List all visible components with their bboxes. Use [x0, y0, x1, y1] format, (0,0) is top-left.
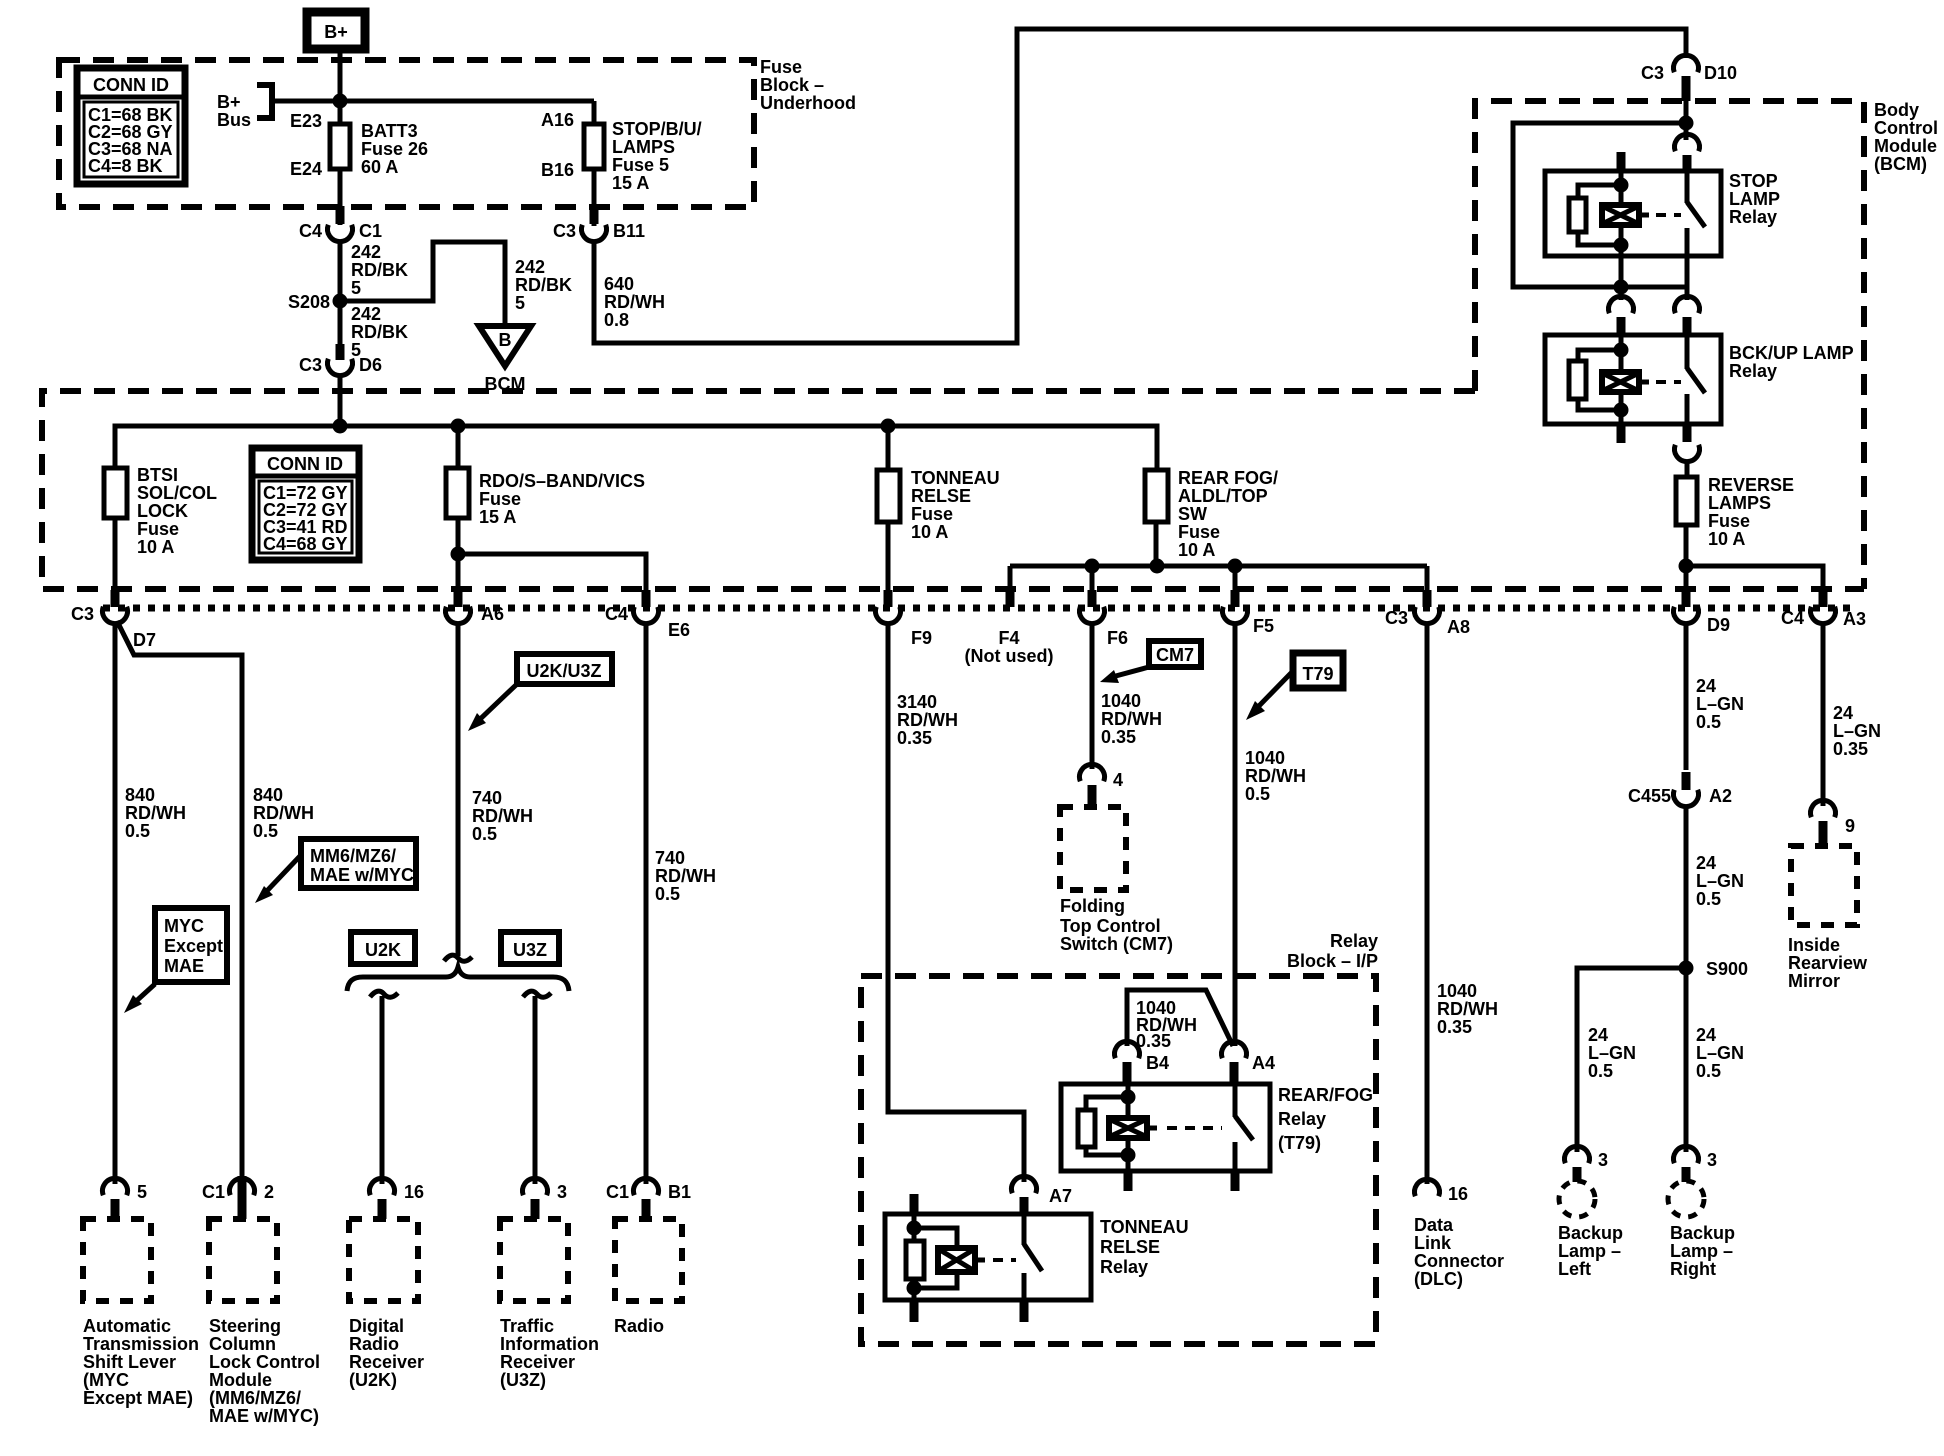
- wire U3Z branch: [523, 991, 551, 1184]
- wire D6 to fuse bus: [338, 374, 343, 426]
- svg-text:E24: E24: [290, 159, 322, 179]
- svg-text:SW: SW: [1178, 504, 1207, 524]
- steering column lock control module box: [209, 1219, 320, 1426]
- svg-text:24: 24: [1696, 1025, 1716, 1045]
- svg-text:Module: Module: [1874, 136, 1937, 156]
- svg-text:Mirror: Mirror: [1788, 971, 1840, 991]
- svg-text:Rearview: Rearview: [1788, 953, 1868, 973]
- svg-text:Underhood: Underhood: [760, 93, 856, 113]
- connector C3/A8: [1385, 590, 1470, 637]
- svg-text:0.5: 0.5: [1696, 889, 1721, 909]
- svg-text:Top Control: Top Control: [1060, 916, 1161, 936]
- svg-text:Fuse: Fuse: [1178, 522, 1220, 542]
- stop relay coil: [1569, 171, 1649, 256]
- svg-text:Block –: Block –: [760, 75, 824, 95]
- node D10 junction: [1679, 116, 1694, 131]
- svg-text:Inside: Inside: [1788, 935, 1840, 955]
- rear/fog relay actuator dashed link: [1167, 1126, 1222, 1130]
- svg-text:RD/WH: RD/WH: [897, 710, 958, 730]
- rear/fog relay label: [1278, 1085, 1373, 1153]
- svg-text:RD/WH: RD/WH: [125, 803, 186, 823]
- svg-text:Shift Lever: Shift Lever: [83, 1352, 176, 1372]
- svg-text:Receiver: Receiver: [500, 1352, 575, 1372]
- svg-text:C1: C1: [359, 221, 382, 241]
- svg-text:Information: Information: [500, 1334, 599, 1354]
- svg-text:Steering: Steering: [209, 1316, 281, 1336]
- svg-text:L–GN: L–GN: [1696, 694, 1744, 714]
- node RDO split: [451, 547, 466, 562]
- svg-text:LOCK: LOCK: [137, 501, 188, 521]
- svg-text:0.5: 0.5: [1696, 712, 1721, 732]
- svg-text:B16: B16: [541, 160, 574, 180]
- label 1040 RD/WH 0.5 (F5): [1245, 748, 1306, 804]
- callout MYC Except MAE: [124, 908, 227, 1013]
- svg-text:D6: D6: [359, 355, 382, 375]
- svg-text:F5: F5: [1253, 616, 1274, 636]
- label 1040 RD/WH 0.35 (F6): [1101, 691, 1162, 747]
- svg-text:ALDL/TOP: ALDL/TOP: [1178, 486, 1268, 506]
- svg-text:D9: D9: [1707, 615, 1730, 635]
- svg-text:0.5: 0.5: [125, 821, 150, 841]
- rear/fog relay switch: [1235, 1084, 1253, 1171]
- BCM label: [1874, 100, 1938, 174]
- svg-text:242: 242: [351, 304, 381, 324]
- wire A2 to backup lamp right: [1684, 806, 1689, 1152]
- svg-text:(T79): (T79): [1278, 1133, 1321, 1153]
- stop relay switch: [1687, 171, 1705, 256]
- svg-text:A6: A6: [481, 604, 504, 624]
- bck/up relay coil bottom stub: [1617, 424, 1626, 443]
- svg-text:F4: F4: [998, 628, 1019, 648]
- svg-text:(DLC): (DLC): [1414, 1269, 1463, 1289]
- svg-text:0.5: 0.5: [253, 821, 278, 841]
- rear/fog relay coil: [1078, 1084, 1157, 1171]
- svg-text:Relay: Relay: [1729, 207, 1777, 227]
- wire E6 740: [644, 623, 649, 1184]
- svg-text:9: 9: [1845, 816, 1855, 836]
- wire BTSI fuse to D7: [113, 518, 118, 592]
- svg-text:Column: Column: [209, 1334, 276, 1354]
- tonneau relay label: [1100, 1217, 1189, 1277]
- wire A8 1040 to DLC: [1425, 623, 1430, 1184]
- connector D9: [1674, 590, 1731, 635]
- svg-text:RD/BK: RD/BK: [515, 275, 572, 295]
- node sub bus fuse feed: [1150, 559, 1165, 574]
- svg-text:24: 24: [1696, 853, 1716, 873]
- svg-text:740: 740: [472, 788, 502, 808]
- svg-text:1040: 1040: [1101, 691, 1141, 711]
- svg-text:Module: Module: [209, 1370, 272, 1390]
- svg-text:Radio: Radio: [614, 1316, 664, 1336]
- U3Z option box: [501, 932, 559, 964]
- svg-text:Lock Control: Lock Control: [209, 1352, 320, 1372]
- wire D7 right branch 840: [117, 621, 242, 1184]
- tonneau relay box: [885, 1214, 1091, 1300]
- svg-text:LAMPS: LAMPS: [612, 137, 675, 157]
- svg-text:E6: E6: [668, 620, 690, 640]
- wire fuse5 to B11: [592, 169, 597, 226]
- svg-text:A16: A16: [541, 110, 574, 130]
- label 24 L-GN 0.5 (right lamp): [1696, 1025, 1744, 1081]
- svg-text:3: 3: [1707, 1150, 1717, 1170]
- wire rear fog fuse to sub bus: [1154, 522, 1159, 566]
- connector B4: [1115, 1041, 1170, 1084]
- svg-text:Lamp –: Lamp –: [1558, 1241, 1621, 1261]
- tonneau relay switch: [1024, 1214, 1042, 1300]
- svg-text:C4=68 GY: C4=68 GY: [263, 534, 348, 554]
- connector arc stop relay switch pin: [1675, 134, 1700, 172]
- wire D10 into BCM: [1684, 101, 1689, 140]
- svg-text:U2K: U2K: [365, 940, 401, 960]
- svg-text:D7: D7: [133, 630, 156, 650]
- bck/up lamp relay label: [1729, 343, 1854, 381]
- relay block label: [1287, 931, 1378, 971]
- connector F9: [876, 590, 933, 648]
- svg-text:Backup: Backup: [1670, 1223, 1735, 1243]
- label 1040 RD/WH 0.35 (A8): [1437, 981, 1498, 1037]
- svg-text:B+: B+: [217, 92, 241, 112]
- connector C4/C1: [299, 206, 382, 242]
- wire B4 jumper from A4: [1127, 990, 1233, 1046]
- stop lamp relay box: [1545, 171, 1721, 256]
- svg-text:D10: D10: [1704, 63, 1737, 83]
- connector C3/B11: [553, 206, 645, 242]
- node sub bus F6: [1085, 559, 1100, 574]
- svg-text:RD/WH: RD/WH: [1101, 709, 1162, 729]
- svg-text:CONN ID: CONN ID: [267, 454, 343, 474]
- svg-text:Fuse: Fuse: [911, 504, 953, 524]
- label 740 RD/WH 0.5 (A6): [472, 788, 533, 844]
- splice S900: [1679, 959, 1749, 979]
- tonneau relay coil: [906, 1214, 985, 1300]
- svg-text:0.5: 0.5: [1696, 1061, 1721, 1081]
- svg-text:B1: B1: [668, 1182, 691, 1202]
- fuse STOP/B/U/LAMPS Fuse 5 15A: [541, 101, 702, 193]
- backup lamp right bulb symbol: [1668, 1181, 1704, 1217]
- svg-text:Relay: Relay: [1278, 1109, 1326, 1129]
- svg-text:F6: F6: [1107, 628, 1128, 648]
- connector 3 backup lamp left: [1565, 1146, 1609, 1182]
- svg-text:Relay: Relay: [1330, 931, 1378, 951]
- svg-text:Folding: Folding: [1060, 896, 1125, 916]
- callout MM6/MZ6/MAE w/MYC: [255, 839, 416, 903]
- wire U2K branch: [370, 991, 398, 1184]
- svg-text:U2K/U3Z: U2K/U3Z: [526, 661, 601, 681]
- connector 4 folding top switch: [1080, 764, 1124, 807]
- svg-text:10 A: 10 A: [911, 522, 948, 542]
- connector C1/2 steering column: [202, 1176, 274, 1219]
- svg-text:16: 16: [404, 1182, 424, 1202]
- stop relay actuator dashed link: [1656, 213, 1681, 217]
- stop lamp relay label: [1729, 171, 1780, 227]
- svg-text:C1: C1: [202, 1182, 225, 1202]
- svg-text:BTSI: BTSI: [137, 465, 178, 485]
- svg-text:RD/WH: RD/WH: [1437, 999, 1498, 1019]
- svg-text:RELSE: RELSE: [1100, 1237, 1160, 1257]
- svg-text:STOP/B/U/: STOP/B/U/: [612, 119, 702, 139]
- wire S900 branch to backup lamp left: [1577, 968, 1686, 1152]
- svg-text:C3: C3: [71, 604, 94, 624]
- tonneau relay actuator dashed link: [993, 1258, 1016, 1262]
- wire S208 branch to BCM ground triangle: [340, 242, 505, 326]
- svg-text:Backup: Backup: [1558, 1223, 1623, 1243]
- svg-text:RD/WH: RD/WH: [655, 866, 716, 886]
- svg-text:2: 2: [264, 1182, 274, 1202]
- svg-text:Except: Except: [164, 936, 223, 956]
- svg-text:(Not used): (Not used): [965, 646, 1054, 666]
- wire 242 RD/BK from C1 to S208: [338, 240, 343, 350]
- svg-text:Transmission: Transmission: [83, 1334, 199, 1354]
- connector C455/A2: [1628, 772, 1732, 807]
- svg-text:1040: 1040: [1437, 981, 1477, 1001]
- connector F5: [1223, 590, 1275, 636]
- svg-text:U3Z: U3Z: [513, 940, 547, 960]
- svg-text:0.8: 0.8: [604, 310, 629, 330]
- svg-text:C3: C3: [299, 355, 322, 375]
- svg-text:L–GN: L–GN: [1588, 1043, 1636, 1063]
- svg-text:TONNEAU: TONNEAU: [1100, 1217, 1189, 1237]
- folding top control switch box: [1060, 807, 1173, 954]
- svg-text:60 A: 60 A: [361, 157, 398, 177]
- svg-text:242: 242: [351, 242, 381, 262]
- node reverse fuse split: [1679, 559, 1694, 574]
- svg-text:0.35: 0.35: [1136, 1031, 1171, 1051]
- connector 5 shift lever: [103, 1178, 148, 1219]
- DLC label: [1414, 1215, 1504, 1289]
- bck/up relay switch: [1687, 335, 1705, 424]
- svg-text:C4: C4: [605, 604, 628, 624]
- svg-text:Fuse: Fuse: [137, 519, 179, 539]
- svg-text:16: 16: [1448, 1184, 1468, 1204]
- wire A3 24 L-GN: [1821, 623, 1826, 806]
- fuse block dashed box (middle): [42, 391, 1864, 589]
- fuse RDO/S-BAND/VICS 15A: [446, 426, 645, 527]
- svg-text:0.35: 0.35: [1833, 739, 1868, 759]
- connector F4 not used: [965, 590, 1054, 666]
- B+ bus label: [217, 92, 251, 130]
- U2K option box: [351, 932, 415, 964]
- svg-text:MAE w/MYC): MAE w/MYC): [209, 1406, 319, 1426]
- fuse BATT3 Fuse 26 60A: [290, 111, 428, 179]
- bck/up relay actuator dashed link: [1656, 380, 1681, 384]
- wire D7 left branch 840: [113, 623, 118, 1184]
- tonneau relay bottom stubs: [910, 1300, 1029, 1322]
- svg-text:TONNEAU: TONNEAU: [911, 468, 1000, 488]
- svg-text:Block – I/P: Block – I/P: [1287, 951, 1378, 971]
- inside rearview mirror box: [1788, 846, 1868, 991]
- connector 16 digital radio: [370, 1178, 425, 1219]
- svg-text:3: 3: [557, 1182, 567, 1202]
- svg-text:Digital: Digital: [349, 1316, 404, 1336]
- svg-text:Relay: Relay: [1729, 361, 1777, 381]
- svg-text:242: 242: [515, 257, 545, 277]
- svg-text:0.35: 0.35: [1101, 727, 1136, 747]
- bck/up relay coil: [1569, 335, 1649, 424]
- svg-text:C3: C3: [1385, 608, 1408, 628]
- svg-text:C3: C3: [553, 221, 576, 241]
- svg-text:REAR FOG/: REAR FOG/: [1178, 468, 1278, 488]
- battery feed B+ box: [307, 12, 365, 49]
- label 640 RD/WH 0.8: [604, 274, 665, 330]
- wire branch to E6: [458, 554, 646, 592]
- svg-text:C4: C4: [1781, 608, 1804, 628]
- svg-text:LAMPS: LAMPS: [1708, 493, 1771, 513]
- svg-text:BCK/UP LAMP: BCK/UP LAMP: [1729, 343, 1854, 363]
- fuse block underhood label: [760, 57, 856, 113]
- svg-text:RDO/S–BAND/VICS: RDO/S–BAND/VICS: [479, 471, 645, 491]
- connector C4/A3: [1781, 590, 1866, 629]
- wire A6 end hook: [444, 955, 472, 961]
- wire BATT3 fuse to C1: [338, 169, 343, 225]
- node sub bus F5: [1228, 559, 1243, 574]
- body control module dashed box: [1475, 101, 1864, 589]
- svg-text:C3: C3: [1641, 63, 1664, 83]
- svg-text:0.5: 0.5: [1588, 1061, 1613, 1081]
- svg-text:24: 24: [1833, 703, 1853, 723]
- svg-text:A7: A7: [1049, 1186, 1072, 1206]
- svg-text:740: 740: [655, 848, 685, 868]
- label 740 RD/WH 0.5 (E6): [655, 848, 716, 904]
- svg-text:(MM6/MZ6/: (MM6/MZ6/: [209, 1388, 301, 1408]
- svg-text:Link: Link: [1414, 1233, 1452, 1253]
- connector 9 mirror: [1811, 800, 1856, 846]
- svg-text:(U3Z): (U3Z): [500, 1370, 546, 1390]
- svg-text:L–GN: L–GN: [1696, 1043, 1744, 1063]
- svg-text:SOL/COL: SOL/COL: [137, 483, 217, 503]
- connector 16 DLC: [1415, 1179, 1469, 1204]
- svg-text:S208: S208: [288, 292, 330, 312]
- radio box: [614, 1219, 682, 1336]
- label 3140 RD/WH 0.35: [897, 692, 958, 748]
- backup lamp left label: [1558, 1223, 1623, 1279]
- wire BCM feed loop to relay common node: [1513, 123, 1687, 287]
- svg-text:840: 840: [125, 785, 155, 805]
- label 840 RD/WH 0.5 left: [125, 785, 186, 841]
- connector 3 backup lamp right: [1674, 1146, 1718, 1182]
- backup lamp left bulb symbol: [1559, 1181, 1595, 1217]
- svg-text:C4=8 BK: C4=8 BK: [88, 156, 163, 176]
- svg-text:0.35: 0.35: [1437, 1017, 1472, 1037]
- svg-text:Fuse: Fuse: [1708, 511, 1750, 531]
- wire F5 1040 to A4: [1233, 623, 1238, 1046]
- wire branch to A3: [1686, 566, 1823, 592]
- connector 3 traffic receiver: [523, 1178, 568, 1219]
- svg-text:RD/BK: RD/BK: [351, 322, 408, 342]
- fuse TONNEAU RELSE 10A: [877, 426, 1000, 542]
- svg-text:Fuse: Fuse: [479, 489, 521, 509]
- svg-text:Body: Body: [1874, 100, 1919, 120]
- svg-text:10 A: 10 A: [1708, 529, 1745, 549]
- svg-text:REAR/FOG: REAR/FOG: [1278, 1085, 1373, 1105]
- svg-text:A3: A3: [1843, 609, 1866, 629]
- BCM B triangle symbol: [479, 326, 531, 394]
- fuse REVERSE LAMPS 10A: [1676, 475, 1794, 549]
- B+ bus bracket: [257, 85, 272, 118]
- svg-text:0.5: 0.5: [655, 884, 680, 904]
- svg-text:5: 5: [515, 293, 525, 313]
- label 24 L-GN 0.5 (left lamp): [1588, 1025, 1636, 1081]
- wire TONNEAU fuse to F9: [886, 522, 891, 592]
- bck/up lamp relay box: [1545, 335, 1721, 424]
- svg-text:840: 840: [253, 785, 283, 805]
- connector F6: [1080, 590, 1129, 648]
- callout CM7: [1100, 641, 1201, 683]
- svg-text:Switch (CM7): Switch (CM7): [1060, 934, 1173, 954]
- svg-text:4: 4: [1113, 770, 1123, 790]
- svg-text:RD/BK: RD/BK: [351, 260, 408, 280]
- svg-text:S900: S900: [1706, 959, 1748, 979]
- connector row dotted line: [103, 605, 1858, 612]
- svg-text:Traffic: Traffic: [500, 1316, 554, 1336]
- stop relay coil pin stub: [1617, 152, 1626, 171]
- svg-text:Left: Left: [1558, 1259, 1591, 1279]
- fuse BTSI SOL/COL LOCK 10A: [104, 465, 217, 557]
- connector C3/D6: [299, 344, 382, 376]
- svg-text:0.35: 0.35: [897, 728, 932, 748]
- svg-text:RD/WH: RD/WH: [604, 292, 665, 312]
- svg-text:Control: Control: [1874, 118, 1938, 138]
- brace split symbol: [347, 967, 569, 991]
- connector C3/D7: [71, 590, 156, 650]
- label 242 RD/BK 5 (branch): [515, 257, 572, 313]
- svg-text:Automatic: Automatic: [83, 1316, 171, 1336]
- rear/fog relay bottom stubs: [1124, 1171, 1240, 1191]
- svg-text:T79: T79: [1302, 664, 1333, 684]
- svg-text:1040: 1040: [1245, 748, 1285, 768]
- label 242 RD/BK 5 (lower): [351, 304, 408, 360]
- svg-text:10 A: 10 A: [137, 537, 174, 557]
- svg-text:Radio: Radio: [349, 1334, 399, 1354]
- connector C1/B1 radio: [606, 1178, 691, 1219]
- connector C3/D10: [1641, 55, 1737, 101]
- splice S208: [288, 292, 348, 312]
- svg-text:640: 640: [604, 274, 634, 294]
- svg-text:(BCM): (BCM): [1874, 154, 1927, 174]
- svg-text:(U2K): (U2K): [349, 1370, 397, 1390]
- svg-text:B+: B+: [324, 22, 348, 42]
- conn id table 1: [77, 68, 185, 184]
- svg-text:5: 5: [351, 278, 361, 298]
- svg-text:MAE: MAE: [164, 956, 204, 976]
- node bus D6 junction: [333, 419, 348, 434]
- connector A7: [1012, 1176, 1073, 1214]
- svg-text:E23: E23: [290, 111, 322, 131]
- wire sub bus: [1010, 566, 1427, 592]
- svg-text:24: 24: [1696, 676, 1716, 696]
- wire RDO fuse to A6: [456, 518, 461, 592]
- svg-text:C1: C1: [606, 1182, 629, 1202]
- svg-text:0.5: 0.5: [1245, 784, 1270, 804]
- svg-text:Receiver: Receiver: [349, 1352, 424, 1372]
- svg-text:Bus: Bus: [217, 110, 251, 130]
- svg-text:CM7: CM7: [1156, 645, 1194, 665]
- svg-text:Relay: Relay: [1100, 1257, 1148, 1277]
- svg-text:L–GN: L–GN: [1833, 721, 1881, 741]
- connector cup reverse fuse feed: [1675, 424, 1700, 477]
- svg-text:B: B: [499, 330, 512, 350]
- svg-text:Right: Right: [1670, 1259, 1716, 1279]
- svg-text:BATT3: BATT3: [361, 121, 418, 141]
- svg-text:LAMP: LAMP: [1729, 189, 1780, 209]
- node B+ bus junction: [333, 94, 348, 109]
- wire main fuse bus: [115, 426, 1157, 470]
- svg-text:C455: C455: [1628, 786, 1671, 806]
- svg-text:15 A: 15 A: [479, 507, 516, 527]
- wire 640 RD/WH from B11 to BCM D10: [594, 29, 1686, 343]
- svg-text:(MYC: (MYC: [83, 1370, 129, 1390]
- tonneau relay coil pin stub: [910, 1194, 919, 1214]
- label 1040 RD/WH 0.35 (B4): [1136, 998, 1197, 1051]
